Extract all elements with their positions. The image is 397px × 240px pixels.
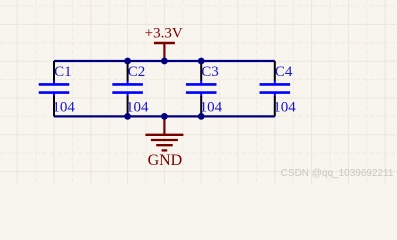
wire: top +3.3V rail (C1 to C4) — [54, 60, 275, 62]
C4 top plate — [260, 83, 291, 86]
svg-text:C4: C4 — [275, 64, 293, 80]
GND bar 2 — [151, 139, 178, 141]
pin 2 (bottom) of C4 — [274, 93, 276, 117]
GND bar 1 — [145, 134, 183, 136]
pin 1 (top) of C1 — [53, 61, 55, 84]
C2 top plate — [112, 83, 143, 86]
C3 bottom plate — [186, 91, 217, 94]
GND bar 3 — [156, 144, 173, 146]
GND stem — [163, 117, 165, 135]
pin 1 (top) of C2 — [127, 61, 129, 84]
svg-text:C2: C2 — [128, 64, 146, 80]
C4 bottom plate — [260, 91, 291, 94]
junction: GND tap — [161, 113, 168, 120]
pin 1 (top) of C3 — [200, 61, 202, 84]
value 104 (C1) — [52, 100, 75, 116]
designator C4 — [275, 64, 293, 80]
C3 top plate — [186, 83, 217, 86]
pin 2 (bottom) of C1 — [53, 93, 55, 117]
pin 2 (bottom) of C2 — [127, 93, 129, 117]
net label GND — [148, 152, 183, 169]
junction: C3 bottom — [198, 113, 205, 120]
ground — [145, 117, 183, 169]
C1 top plate — [39, 83, 70, 86]
junction: C2 top — [124, 58, 131, 65]
svg-text:C1: C1 — [54, 64, 72, 80]
wire: bottom GND rail (C1 to C4) — [54, 115, 275, 117]
designator C3 — [201, 64, 219, 80]
junction: C3 top — [198, 58, 205, 65]
svg-text:+3.3V: +3.3V — [145, 26, 183, 42]
GND bar 4 — [162, 149, 168, 151]
capacitor C3 — [186, 61, 223, 116]
watermark — [281, 168, 394, 179]
value 104 (C2) — [126, 100, 149, 116]
grid (decorative) — [0, 0, 397, 184]
C2 bottom plate — [112, 91, 143, 94]
designator C2 — [128, 64, 146, 80]
pin 2 (bottom) of C3 — [200, 93, 202, 117]
svg-text:CSDN @qq_1039692211: CSDN @qq_1039692211 — [281, 168, 394, 179]
svg-text:C3: C3 — [201, 64, 219, 80]
junction: +3.3V tap — [161, 58, 168, 65]
power port +3.3V — [145, 26, 183, 60]
svg-text:104: 104 — [273, 100, 296, 116]
value 104 (C3) — [200, 100, 223, 116]
net label +3.3V — [145, 26, 183, 42]
designator C1 — [54, 64, 72, 80]
capacitor C4 — [260, 61, 297, 116]
svg-text:GND: GND — [148, 152, 183, 169]
+3.3V bar — [154, 42, 175, 44]
capacitor C2 — [112, 61, 149, 116]
pin 1 (top) of C4 — [274, 61, 276, 84]
junction: C2 bottom — [124, 113, 131, 120]
svg-text:104: 104 — [200, 100, 223, 116]
svg-text:104: 104 — [52, 100, 75, 116]
C1 bottom plate — [39, 91, 70, 94]
+3.3V stem — [163, 43, 165, 60]
svg-text:104: 104 — [126, 100, 149, 116]
value 104 (C4) — [273, 100, 296, 116]
capacitor C1 — [39, 61, 76, 116]
